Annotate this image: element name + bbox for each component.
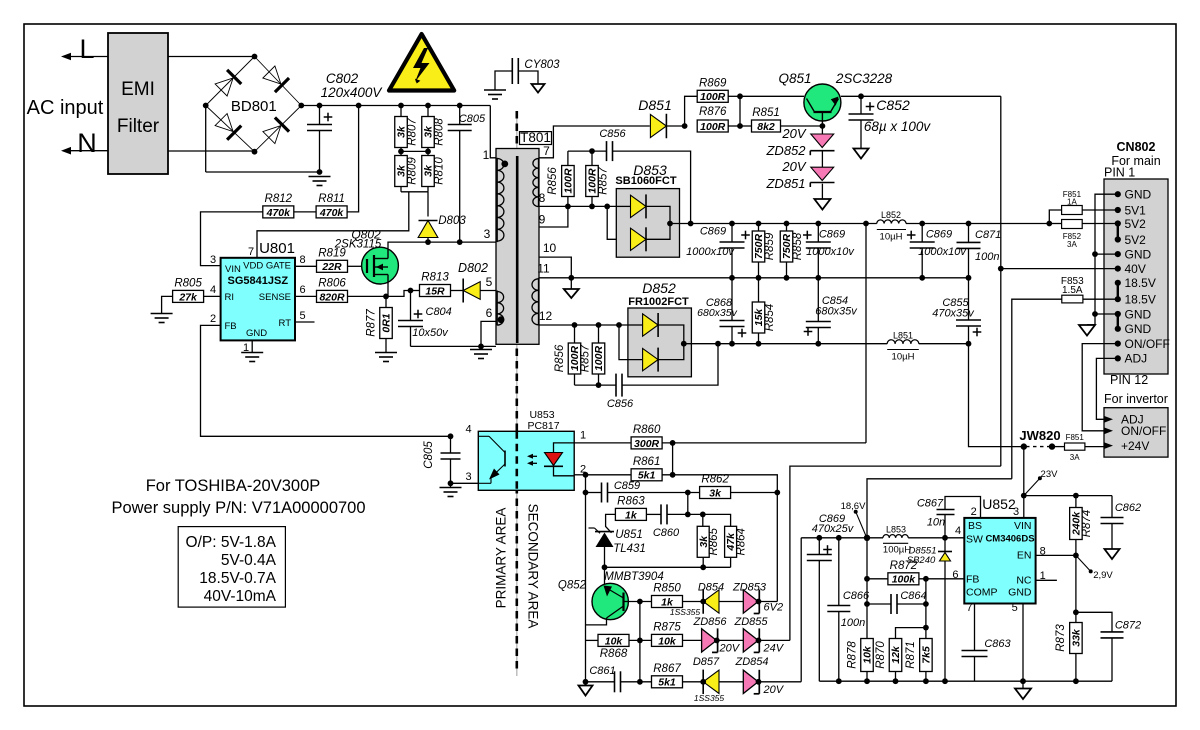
resistor R876 100R [697,120,728,132]
svg-text:10µH: 10µH [880,232,903,243]
wire R869/R876 junction [739,96,741,126]
wire Q852 base row [628,601,651,603]
wire primary bottom rail [411,345,497,347]
test point 2,9V [1076,555,1091,571]
LED inside U853 [554,443,575,453]
node R861 out [670,472,676,478]
svg-text:FB: FB [225,321,237,332]
svg-text:4: 4 [465,424,471,436]
wire ON/OFF to invertor [1082,344,1118,431]
wire CY803 left to primary ground [495,71,512,90]
ground (secondary) CN802 [1094,314,1096,325]
svg-text:RT: RT [279,318,292,329]
node R807-R809 junction [398,149,404,155]
svg-text:TL431: TL431 [613,543,646,555]
node R871 bottom [923,678,929,684]
resistor R819 22R [317,260,348,272]
svg-text:SB1060FCT: SB1060FCT [615,175,676,187]
resistor R808 3k [427,106,429,117]
zener ZD856 20V [702,629,717,652]
resistor R856 100R (bottom) [574,325,576,344]
wire Q851 emitter to rail [841,95,1001,97]
wire lower (18.5V) rail [684,343,887,345]
resistor R858 750R [786,224,788,232]
svg-text:3A: 3A [1067,240,1077,249]
svg-text:11: 11 [537,262,550,276]
node R862 right [774,490,780,496]
svg-text:18.5V-0.7A: 18.5V-0.7A [199,570,276,587]
shunt regulator U851 TL431 [595,531,614,533]
svg-text:100n: 100n [841,617,865,629]
resistor R867 5k1 [652,676,683,688]
svg-text:C805: C805 [423,441,435,469]
svg-text:6: 6 [300,284,306,296]
node GND bus a [1092,251,1098,257]
zener ZD853 6V2 [743,590,758,613]
wire 18.5V tap column down [866,538,868,639]
T801 primary winding 1-3 [496,158,498,242]
svg-text:20V: 20V [719,643,741,655]
node ZD855 [756,638,762,644]
test point 23V [1024,478,1040,495]
node C861 left [583,679,589,685]
transformer T801 [496,149,539,345]
resistor R875 10k [652,634,683,646]
resistor R857 100R (bottom) [598,325,600,344]
svg-text:12: 12 [539,309,553,323]
svg-text:PIN 12: PIN 12 [1110,373,1148,387]
pin GND CN802 [1115,326,1121,332]
svg-text:C859: C859 [614,480,640,492]
resistor R857 100R (top) [591,151,593,165]
svg-text:O/P: 5V-1.8A: O/P: 5V-1.8A [186,534,277,551]
wire 5V output rail [691,223,877,225]
svg-text:R877: R877 [365,309,377,337]
svg-text:R861: R861 [633,456,661,468]
wire D853 outputs join [646,206,670,239]
svg-text:C869: C869 [819,229,845,241]
node R874 top [1073,493,1079,499]
resistor R860 300R [631,437,662,449]
resistor R854 15k [758,278,760,303]
ground (primary) U801 [241,352,263,354]
wire bridge left vertex down to ground row [205,106,207,173]
svg-text:3: 3 [1013,506,1019,518]
node C859/R863 column top [685,490,691,496]
pin ADJ invertor [1104,416,1113,423]
node TL431 anode [602,564,608,570]
svg-text:R860: R860 [633,424,661,436]
svg-text:100µH: 100µH [883,545,911,556]
node R869 right [737,93,743,99]
chassis ground CY803 [532,84,545,93]
node R875 row [637,638,643,644]
svg-text:2SC3228: 2SC3228 [835,71,893,86]
svg-text:C869: C869 [700,226,726,238]
svg-text:GND: GND [1125,307,1152,321]
svg-text:100n: 100n [975,251,999,263]
svg-text:100R: 100R [593,346,605,372]
node C869a bottom [729,275,735,281]
svg-text:40V-10mA: 40V-10mA [204,588,277,605]
wire R850 to D854 [682,601,703,603]
wire ZD853 to column [759,601,778,603]
svg-text:NC: NC [1016,575,1032,587]
resistor R874 240k [1075,496,1077,508]
svg-text:470x25v: 470x25v [812,523,855,535]
wire R863 left to TL431 ref [606,514,616,532]
wire U852 GND pin [1022,604,1024,682]
pin 5V1 CN802 [1115,207,1121,213]
node ZD854 [756,679,762,685]
diode D802 [451,290,464,292]
svg-text:D854: D854 [698,582,724,594]
wire pin8 row to D853 [539,205,616,207]
node R867 row [637,679,643,685]
svg-text:N: N [77,128,97,158]
wire R807/R808 junction row [400,148,402,156]
svg-text:ZD855: ZD855 [733,616,768,628]
svg-text:10µH: 10µH [892,352,915,363]
svg-text:680x35v: 680x35v [815,306,858,318]
svg-text:18,6V: 18,6V [841,501,866,512]
pin GND CN802 [1115,311,1121,317]
node C854 bottom [815,341,821,347]
inductor L851 10uH [887,340,895,344]
capacitor C805 (snubber top) [459,106,461,125]
wire pin3 row [451,482,479,484]
svg-text:R872: R872 [890,560,918,572]
pin 18.5V CN802 [1115,296,1121,302]
svg-text:R813: R813 [421,272,449,284]
node bridge left [203,103,209,109]
diode D853 lower [631,228,647,250]
wire U801 gate to R819 to Q802 [295,265,317,267]
svg-text:2SK3115: 2SK3115 [334,239,382,251]
wire VIN column [1023,447,1025,518]
wire Q802 drain to pin3 row [388,242,499,248]
wire R861 right to ZD column [662,475,778,602]
capacitor C862 [1111,496,1113,518]
wire R860/R861 junction [672,443,674,475]
fuse F851 3A (24V) [1052,446,1065,448]
svg-text:5V-0.4A: 5V-0.4A [221,552,277,569]
wire U801 RT stub [295,321,315,323]
resistor R810 3k [422,156,435,187]
svg-text:1: 1 [483,148,490,162]
node pin2 [583,472,589,478]
svg-text:470x35v: 470x35v [932,308,975,320]
ground (secondary) C862 [1105,549,1120,559]
node R857 top [589,148,595,154]
node R865 top [700,512,706,518]
svg-text:1000x10v: 1000x10v [686,246,735,258]
resistor R813 15R [420,285,451,297]
svg-text:1000x10v: 1000x10v [806,246,855,258]
svg-text:5: 5 [1012,602,1018,614]
svg-text:FB: FB [966,574,979,586]
svg-text:ON/OFF: ON/OFF [1125,337,1170,351]
node C802 top [317,103,323,109]
diode D803 [418,221,438,238]
diode D853 upper [631,195,647,217]
wire 5V2-5V2 link [1117,224,1119,240]
capacitor C869 1000x10v (c) [921,224,923,243]
svg-text:PRIMARY AREA: PRIMARY AREA [494,508,509,609]
svg-text:5: 5 [300,310,306,322]
node C868 bottom [729,341,735,347]
node C805 top [457,103,463,109]
phase dot pin6 [498,316,505,323]
node pin11 ground [568,275,574,281]
svg-text:27k: 27k [178,291,198,303]
pin ON/OFF invertor [1104,427,1113,434]
wire R860 to 5V feed column [662,442,866,444]
svg-text:R858: R858 [792,232,804,260]
node R870 bottom [893,678,899,684]
wire Q852 collector to left column [586,618,607,625]
node R873 top [1073,609,1079,615]
wire N arrow [70,150,108,152]
svg-text:6: 6 [486,306,493,320]
wire R876 right [728,125,740,127]
svg-text:R878: R878 [846,641,858,669]
wire D852 outputs join [658,325,684,360]
svg-text:VIN: VIN [225,264,241,275]
node R807 top [398,103,404,109]
svg-text:R851: R851 [752,107,780,119]
svg-text:R809: R809 [406,157,418,185]
svg-text:FR1002FCT: FR1002FCT [628,296,689,308]
node R857 bottom [589,204,595,210]
bridge rectifier BD801 [206,57,255,106]
node R878 bottom [864,678,870,684]
svg-text:GND: GND [1125,322,1152,336]
svg-text:5V2: 5V2 [1125,233,1147,247]
svg-text:L851: L851 [893,331,913,341]
svg-text:R808: R808 [433,118,445,146]
boundary dashed line over U853 [515,431,518,490]
svg-text:22R: 22R [321,261,342,273]
wire ZD854 to 18.5V output column [759,681,802,683]
svg-text:D857: D857 [693,656,720,668]
svg-text:C805: C805 [459,113,486,125]
node R872 left [864,576,870,582]
node EN [1073,553,1079,559]
node D8551 bottom [942,678,948,684]
svg-text:23V: 23V [1041,469,1059,480]
svg-text:BD801: BD801 [231,98,277,115]
wire 40V to CN802 [1001,268,1118,270]
node R872 right [923,576,929,582]
node C869b top [815,221,821,227]
svg-text:L853: L853 [886,525,906,535]
node C802 bottom [317,169,323,175]
diode D852 upper [643,314,659,336]
wire bar down to D803 [427,192,429,217]
wire EMI to bridge top (L) [168,56,255,58]
node GND bus b [1092,311,1098,317]
wire R809/R810 bottoms to bar [400,187,402,192]
svg-text:33k: 33k [1071,628,1083,647]
resistor R870 12k [889,639,902,672]
svg-text:R857: R857 [579,344,591,372]
capacitor C859 [586,492,602,494]
svg-text:R812: R812 [265,193,293,205]
resistor R877 0R1 [385,296,387,307]
svg-text:R865: R865 [708,527,720,555]
ground (primary) below C802 [309,176,331,178]
wire ZD851 to ground [821,184,823,199]
svg-text:R873: R873 [1055,624,1067,652]
node C855 bottom / 24V takeoff [966,341,972,347]
wire R869 loop left [685,96,698,126]
svg-text:R811: R811 [318,193,345,205]
node R856b top [572,322,578,328]
node drain/D803 junction [425,239,431,245]
wire D802 to T801 pin5 [480,290,498,292]
svg-text:R806: R806 [318,277,346,289]
svg-text:3k: 3k [709,487,722,499]
wire 5V feed column up [865,224,867,443]
diode D851 [650,114,666,137]
node C869c top [919,221,925,227]
svg-text:D851: D851 [638,97,671,113]
wire R812-R811 [294,211,316,213]
node 23V [1021,493,1027,499]
capacitor C852 68u x 100v [860,96,862,114]
node R876 right [737,123,743,129]
svg-text:R864: R864 [736,528,748,556]
svg-text:R857: R857 [597,167,609,195]
wire ground row to C802 bottom [206,171,320,173]
svg-text:6V2: 6V2 [764,602,784,614]
svg-text:R869: R869 [699,77,727,89]
svg-text:ZD854: ZD854 [734,656,768,668]
resistor R863 1k [615,508,646,520]
wire pin10 down to pin11 row [539,257,571,278]
inductor L852 10uH [877,220,884,224]
svg-text:D802: D802 [458,261,488,275]
svg-text:100k: 100k [892,574,917,586]
node opto feed [863,221,869,227]
node source/R877 junction [383,294,389,300]
svg-text:100R: 100R [700,121,726,133]
wire T801 pin7 to D851 [539,126,650,158]
svg-text:470k: 470k [266,207,292,219]
svg-text:R856: R856 [554,344,566,372]
svg-text:3A: 3A [1070,453,1080,462]
capacitor C855 470x35v [968,278,970,320]
node D852 lower branch [616,322,622,328]
svg-text:20V: 20V [781,126,806,141]
wire R864 hook [703,514,731,526]
svg-text:40V: 40V [1125,262,1146,276]
wire ZD856-ZD855 [717,639,744,641]
node R860 out [670,440,676,446]
svg-text:10n: 10n [927,517,945,529]
node C869d top [816,535,822,541]
wire snubber top row [568,150,607,152]
capacitor C805 (bottom) [450,436,452,453]
rectifier D852 FR1002FCT [628,308,692,377]
pin GND CN802 [1115,251,1121,257]
svg-text:ZD856: ZD856 [692,616,727,628]
wire R862/R863 junction column [687,493,689,515]
svg-text:C861: C861 [589,665,615,677]
wire U801 SENSE to R806 to source node [295,295,317,297]
wire R870 branch [896,628,926,639]
pin 18.5V CN802 [1115,280,1121,286]
fuse F853 1.5A [1062,295,1083,303]
svg-text:AC input: AC input [27,97,104,119]
svg-text:ZD851: ZD851 [765,176,805,191]
node C869a top [729,221,735,227]
node opto pin3 [448,480,454,486]
node C869b bottom [815,275,821,281]
capacitor C802 [319,106,321,125]
svg-text:0R1: 0R1 [381,313,393,332]
node C871 top [966,221,972,227]
transistor Q802 2SK3115 (MOSFET) [362,247,399,284]
svg-text:Filter: Filter [117,116,160,137]
svg-text:10k: 10k [605,635,624,647]
svg-text:GND: GND [1125,247,1152,261]
resistor R811 470k [316,206,347,218]
svg-text:5V1: 5V1 [1125,203,1147,217]
svg-text:CN802: CN802 [1117,140,1156,154]
node R859 top [756,221,762,227]
node R865 bottom [700,564,706,570]
svg-text:7k5: 7k5 [921,646,933,664]
svg-text:5k1: 5k1 [658,677,676,689]
resistor R850 1k [652,596,683,608]
svg-text:3: 3 [465,471,471,483]
resistor R865 3k [702,514,704,526]
svg-text:C804: C804 [426,306,452,318]
svg-text:7: 7 [248,246,254,258]
node C852 top [858,93,864,99]
svg-text:8: 8 [300,254,306,266]
svg-text:2: 2 [210,313,216,325]
wire base column down [639,602,641,682]
resistor R861 5k1 [586,474,632,476]
wire pin11 row (secondary ground mid rail) [539,277,969,279]
svg-text:R859: R859 [764,232,776,260]
svg-text:10: 10 [543,241,557,255]
resistor R806 820R [317,290,348,302]
node R813/C804 junction [408,288,414,294]
resistor R868 10k [586,639,599,641]
svg-text:1A: 1A [1067,198,1077,207]
svg-text:R863: R863 [617,495,645,507]
resistor R878 10k [861,639,874,672]
svg-text:3: 3 [484,227,491,241]
svg-text:1: 1 [580,430,586,442]
svg-text:SENSE: SENSE [259,292,291,303]
node ZD853 [756,599,762,605]
wire D852 lower branch [619,325,642,360]
zener ZD855 24V [743,629,758,652]
node bridge top [252,54,258,60]
wire 40V-to-zener line [790,466,1001,640]
svg-text:GND: GND [1008,587,1032,599]
wire 18.5V tap up [867,479,1012,538]
svg-text:120x400V: 120x400V [321,85,384,100]
wire U801 FB to opto pin4 [201,325,451,436]
node C856b rail [715,341,721,347]
svg-text:470k: 470k [319,207,345,219]
